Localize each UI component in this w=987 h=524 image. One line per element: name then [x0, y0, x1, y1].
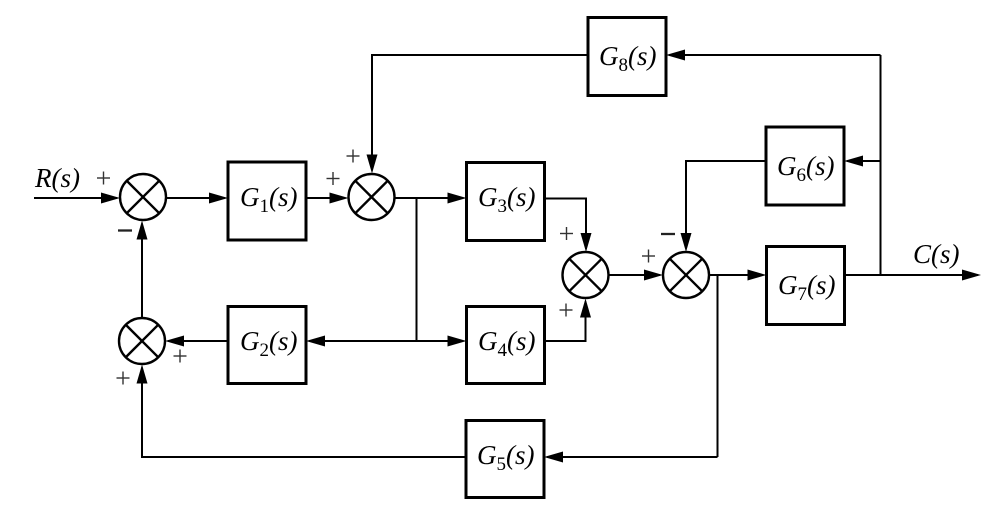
svg-text:G6(s): G6(s)	[777, 151, 835, 186]
wire R(s) input to S1	[34, 197, 117, 199]
block G7	[767, 247, 845, 325]
sign minus at S1 bottom	[118, 229, 132, 231]
wire branch node down to G5 feedback	[717, 275, 719, 457]
wire top feedback to G8	[669, 54, 881, 56]
summing junction S3	[563, 252, 609, 298]
wire G7 to C(s) output with branch node	[845, 274, 979, 276]
sign plus at S5 bottom input	[117, 372, 130, 385]
wire G4 to S3 bottom	[545, 302, 586, 342]
block G6	[766, 127, 844, 205]
block G1	[228, 162, 306, 240]
summing junction S5	[119, 318, 165, 364]
wire G6 to S4 top	[686, 161, 766, 249]
sign plus at S5 right input	[174, 350, 187, 363]
block G8	[588, 18, 666, 96]
sign plus at S2 top input	[347, 150, 360, 163]
svg-text:G2(s): G2(s)	[240, 326, 298, 361]
wire branch node down to G2/G4 tee	[416, 198, 418, 341]
svg-text:R(s): R(s)	[34, 163, 80, 193]
wire tee to G4	[417, 340, 464, 342]
wire S3 to S4	[609, 274, 661, 276]
wire right riser from output node up	[880, 55, 882, 275]
svg-text:G4(s): G4(s)	[478, 326, 536, 361]
summing junction S1	[120, 174, 166, 220]
svg-text:G3(s): G3(s)	[478, 182, 536, 217]
svg-text:G7(s): G7(s)	[778, 270, 836, 305]
summing junction S4	[663, 252, 709, 298]
block G2	[228, 307, 306, 384]
wire S2 to G3 with branch node	[395, 197, 464, 199]
sign plus at S3 top input	[560, 227, 573, 240]
wire riser tap to G6	[847, 160, 881, 162]
sign plus at S2 left input	[327, 172, 340, 185]
svg-text:C(s): C(s)	[913, 239, 960, 269]
wire S4 to G7 with branch node	[709, 274, 763, 276]
wire feedback down to G5	[547, 456, 718, 458]
summing junction S2	[349, 174, 395, 220]
sign plus at S4 left input	[642, 250, 655, 263]
sign plus at S3 bottom input	[560, 304, 573, 317]
wire tee to G2	[309, 340, 417, 342]
sign plus at S1 input	[97, 172, 110, 185]
wire S1 to G1	[166, 197, 225, 199]
block G5	[466, 421, 544, 498]
block G4	[467, 307, 545, 384]
wire G1 to S2	[306, 197, 345, 199]
block G3	[467, 163, 545, 241]
svg-text:G5(s): G5(s)	[477, 440, 535, 475]
svg-text:G1(s): G1(s)	[240, 182, 298, 217]
wire G3 to S3 top	[545, 199, 587, 250]
svg-text:G8(s): G8(s)	[599, 41, 657, 76]
wire G2 to S5	[168, 340, 228, 342]
wire S5 up to S1 bottom	[141, 224, 143, 319]
wire G5 to S5 bottom	[142, 368, 466, 458]
wire G8 to S2 top	[372, 55, 588, 171]
sign minus at S4 top input	[661, 233, 675, 235]
